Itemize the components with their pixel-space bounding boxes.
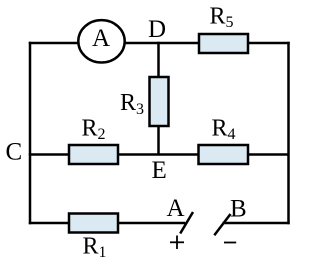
wire top left segment <box>29 42 80 45</box>
resistor R3 box <box>150 77 169 126</box>
svg-text:D: D <box>148 16 166 43</box>
plus sign <box>170 236 184 250</box>
resistor R5 box <box>199 34 248 53</box>
ammeter U1 circle <box>78 20 124 62</box>
wire R3 vertical branch (D to E) <box>157 42 160 155</box>
resistor R2 box <box>69 145 118 164</box>
svg-text:C: C <box>6 139 23 166</box>
switch contact B (slash) <box>214 214 230 235</box>
wire right vertical <box>287 42 290 224</box>
wire left vertical <box>29 42 32 224</box>
resistor R1 box <box>69 214 118 233</box>
svg-text:B: B <box>230 196 247 223</box>
svg-text:A: A <box>92 25 110 52</box>
switch contact A (slash) <box>180 212 193 234</box>
wire bottom right segment <box>223 222 290 225</box>
minus sign <box>224 242 236 244</box>
svg-text:E: E <box>152 157 167 184</box>
wire top right segment <box>247 42 290 45</box>
svg-text:A: A <box>167 195 185 222</box>
resistor R4 box <box>199 145 249 164</box>
wire top middle segment (ammeter to R5) <box>123 42 200 45</box>
wire bottom left segment <box>29 222 186 225</box>
wire middle horizontal (C to right side) <box>29 153 289 156</box>
